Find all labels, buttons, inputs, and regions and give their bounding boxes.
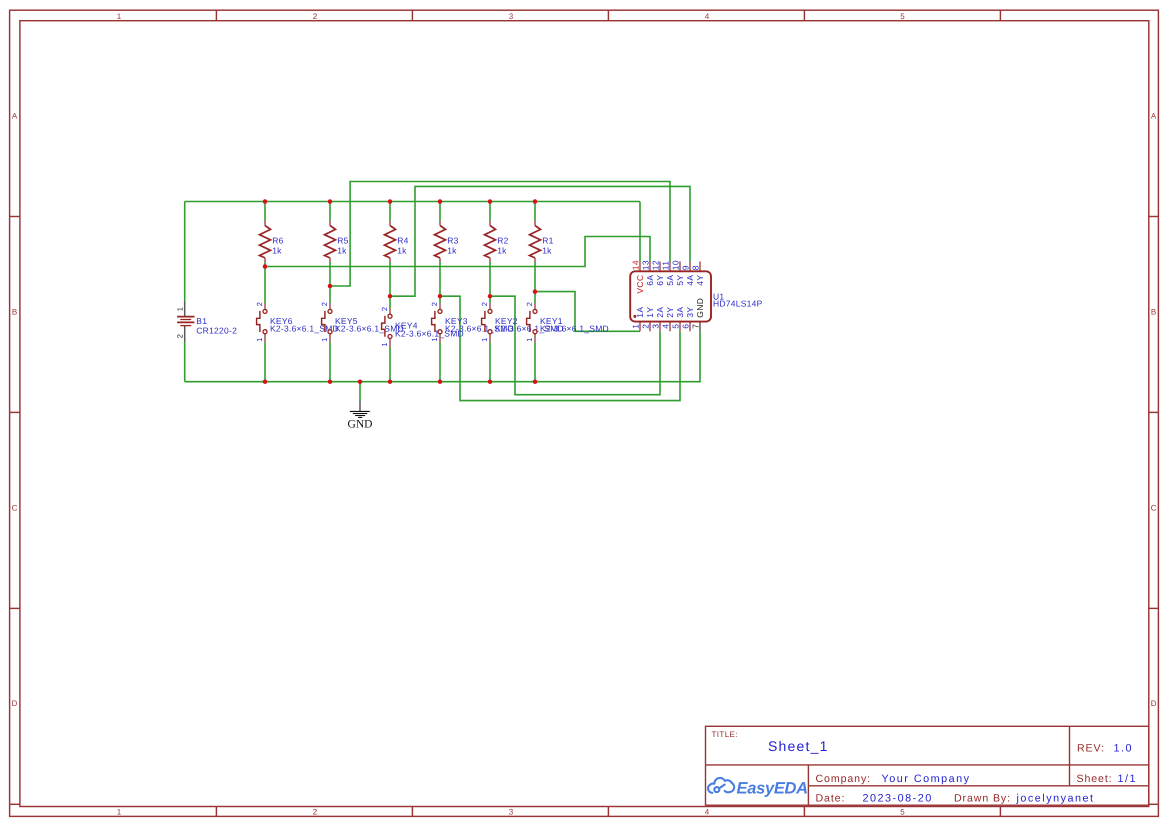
svg-text:7: 7: [691, 324, 701, 329]
svg-text:1k: 1k: [542, 245, 552, 255]
pushbutton KEY5: [320, 302, 404, 342]
pushbutton KEY4: [380, 307, 464, 347]
wire KEY4 node to U1 4A: [390, 186, 690, 296]
svg-text:1: 1: [525, 338, 534, 342]
resistor R2: [485, 221, 509, 262]
svg-text:1: 1: [430, 338, 439, 342]
svg-text:2A: 2A: [655, 307, 665, 318]
svg-text:EasyEDA: EasyEDA: [737, 779, 808, 797]
svg-text:1: 1: [176, 307, 185, 311]
svg-text:HD74LS14P: HD74LS14P: [713, 298, 763, 308]
svg-text:5A: 5A: [665, 275, 675, 286]
svg-text:VCC: VCC: [635, 275, 645, 294]
wire KEY3 node to U1 3A: [440, 296, 680, 400]
svg-text:Drawn By:: Drawn By:: [954, 793, 1011, 805]
svg-text:4Y: 4Y: [695, 275, 705, 286]
junction (265,201.5): [263, 199, 268, 204]
svg-text:10: 10: [671, 260, 681, 270]
svg-text:2: 2: [320, 302, 329, 306]
svg-text:1k: 1k: [447, 245, 457, 255]
svg-text:1Y: 1Y: [645, 307, 655, 318]
svg-text:4: 4: [705, 12, 710, 21]
svg-text:2: 2: [430, 302, 439, 306]
wire column x=440 resistor/key: [439, 202, 441, 222]
svg-text:Company:: Company:: [816, 773, 871, 785]
svg-text:R1: R1: [542, 235, 553, 245]
svg-text:GND: GND: [348, 418, 373, 430]
resistor R5: [325, 221, 349, 262]
svg-text:3A: 3A: [675, 307, 685, 318]
svg-text:3: 3: [651, 324, 661, 329]
pushbutton KEY6: [255, 302, 339, 342]
svg-text:REV:: REV:: [1077, 742, 1105, 754]
svg-text:2: 2: [641, 324, 651, 329]
svg-text:R3: R3: [447, 235, 458, 245]
svg-text:C: C: [1151, 504, 1157, 513]
wire column x=265 resistor/key: [264, 202, 266, 222]
junction (535,381.7): [533, 379, 538, 384]
junction (490,296.2): [488, 294, 493, 299]
svg-text:9: 9: [681, 265, 691, 270]
svg-text:A: A: [1151, 112, 1157, 121]
junction (330,201.5): [328, 199, 333, 204]
svg-text:2Y: 2Y: [665, 307, 675, 318]
svg-text:6Y: 6Y: [655, 275, 665, 286]
wire KEY5 node to U1 5A: [330, 182, 670, 287]
pushbutton KEY3: [430, 302, 514, 342]
svg-text:5: 5: [671, 324, 681, 329]
wire column x=535 resistor/key: [534, 202, 536, 222]
svg-text:1k: 1k: [272, 245, 282, 255]
junction (265,381.7): [263, 379, 268, 384]
junction (440,381.7): [438, 379, 443, 384]
svg-text:TITLE:: TITLE:: [712, 730, 738, 739]
junction (330,381.7): [328, 379, 333, 384]
svg-text:11: 11: [661, 260, 671, 270]
svg-text:A: A: [12, 112, 18, 121]
svg-text:2: 2: [313, 808, 318, 817]
svg-text:2: 2: [525, 302, 534, 306]
junction (390,296.2): [388, 294, 393, 299]
junction (535,291.6): [533, 289, 538, 294]
svg-text:1: 1: [320, 338, 329, 342]
svg-text:B: B: [12, 308, 17, 317]
svg-text:2: 2: [480, 302, 489, 306]
svg-text:1: 1: [117, 808, 122, 817]
svg-text:2: 2: [313, 12, 318, 21]
svg-text:2: 2: [255, 302, 264, 306]
svg-text:4: 4: [705, 808, 710, 817]
svg-text:Your Company: Your Company: [882, 773, 971, 785]
svg-text:1k: 1k: [337, 245, 347, 255]
svg-text:B: B: [1151, 308, 1156, 317]
wire column x=390 resistor/key: [389, 202, 391, 222]
svg-text:14: 14: [631, 260, 641, 270]
svg-text:1: 1: [117, 12, 122, 21]
wire KEY2 node to U1 2A: [490, 296, 660, 395]
svg-text:D: D: [12, 699, 18, 708]
svg-text:12: 12: [651, 260, 661, 270]
svg-text:C: C: [12, 504, 18, 513]
svg-text:6A: 6A: [645, 275, 655, 286]
resistor R4: [385, 221, 409, 262]
wire battery positive: [184, 202, 186, 301]
svg-text:5Y: 5Y: [675, 275, 685, 286]
junction (330,286): [328, 284, 333, 289]
svg-text:Sheet_1: Sheet_1: [768, 738, 829, 754]
resistor R3: [435, 221, 459, 262]
svg-text:1: 1: [480, 338, 489, 342]
junction (360,381.7): [358, 379, 363, 384]
pushbutton KEY1: [525, 302, 609, 342]
svg-text:R2: R2: [497, 235, 508, 245]
svg-text:3Y: 3Y: [685, 307, 695, 318]
junction (390,381.7): [388, 379, 393, 384]
IC U1 HD74LS14P: [630, 260, 762, 331]
battery B1: [176, 301, 237, 342]
wire ground tap: [359, 382, 361, 401]
svg-text:4A: 4A: [685, 275, 695, 286]
ground GND: [348, 401, 373, 430]
svg-text:5: 5: [900, 12, 905, 21]
svg-text:4: 4: [661, 324, 671, 329]
junction (535,201.5): [533, 199, 538, 204]
svg-text:1k: 1k: [497, 245, 507, 255]
svg-text:3: 3: [509, 12, 514, 21]
junction (490,201.5): [488, 199, 493, 204]
svg-text:13: 13: [641, 260, 651, 270]
wire column x=490 resistor/key: [489, 202, 491, 222]
junction (490,381.7): [488, 379, 493, 384]
junction (440,201.5): [438, 199, 443, 204]
svg-text:R5: R5: [337, 235, 348, 245]
svg-text:2: 2: [176, 334, 185, 338]
junction (390,201.5): [388, 199, 393, 204]
wire VCC top bus: [185, 201, 640, 203]
svg-text:1/1: 1/1: [1118, 773, 1138, 785]
svg-text:1: 1: [631, 324, 641, 329]
svg-text:1: 1: [255, 338, 264, 342]
junction (265,266.5): [263, 264, 268, 269]
svg-text:R4: R4: [397, 235, 408, 245]
svg-text:K2-3.6×6.1_SMD: K2-3.6×6.1_SMD: [335, 324, 404, 334]
wire column x=330 resistor/key: [329, 202, 331, 222]
wire battery negative: [184, 342, 186, 382]
svg-text:2023-08-20: 2023-08-20: [863, 792, 933, 804]
svg-text:5: 5: [900, 808, 905, 817]
svg-text:Date:: Date:: [816, 792, 846, 804]
wire KEY1 node to U1 1A: [535, 292, 640, 332]
svg-text:Sheet:: Sheet:: [1077, 773, 1113, 785]
resistor R1: [530, 221, 554, 262]
svg-text:6: 6: [681, 324, 691, 329]
svg-text:1.0: 1.0: [1114, 742, 1134, 754]
wire ground bottom bus: [185, 331, 700, 381]
svg-text:R6: R6: [272, 235, 283, 245]
svg-text:CR1220-2: CR1220-2: [196, 325, 237, 335]
resistor R6: [260, 221, 284, 262]
svg-text:1: 1: [380, 342, 389, 346]
svg-text:8: 8: [691, 265, 701, 270]
wire VCC to U1 pin14: [639, 202, 641, 262]
svg-text:3: 3: [509, 808, 514, 817]
svg-text:1k: 1k: [397, 245, 407, 255]
wire KEY6 node to U1 6A: [265, 237, 650, 267]
svg-text:D: D: [1151, 699, 1157, 708]
svg-text:1A: 1A: [635, 307, 645, 318]
svg-text:K2-3.6×6.1_SMD: K2-3.6×6.1_SMD: [540, 324, 609, 334]
svg-text:jocelynyanet: jocelynyanet: [1016, 793, 1095, 805]
pushbutton KEY2: [480, 302, 564, 342]
svg-text:GND: GND: [695, 298, 705, 318]
svg-text:2: 2: [380, 307, 389, 311]
junction (440,296.2): [438, 294, 443, 299]
